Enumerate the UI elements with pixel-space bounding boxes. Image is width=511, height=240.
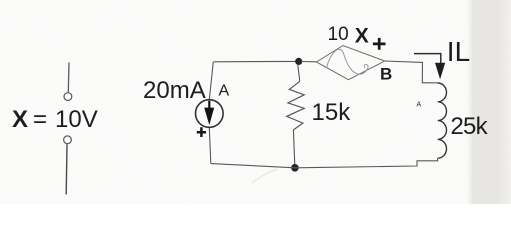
current arrow IL (annotation) bbox=[414, 54, 441, 64]
terminal (bottom, port X) bbox=[64, 136, 72, 144]
inductor coil (25k) bbox=[438, 83, 447, 158]
terminal (top, port X) bbox=[64, 93, 72, 101]
wire (diamond to right corner) bbox=[385, 61, 438, 83]
node junction (top of 15k) bbox=[295, 58, 302, 65]
dependent source squiggle bbox=[327, 49, 369, 74]
polarity + (dependent source) bbox=[373, 38, 386, 50]
wire (bottom rail) bbox=[211, 158, 438, 168]
wire (top lead of port X) bbox=[67, 63, 70, 93]
wire (15k bottom lead) bbox=[293, 130, 295, 168]
dependent source (diamond, 10X) bbox=[316, 46, 384, 80]
scanner gray band on right edge bbox=[464, 0, 511, 204]
current source I1 (20mA) circle bbox=[196, 100, 224, 128]
polarity + (current source) bbox=[197, 127, 206, 137]
wire (node to diamond) bbox=[301, 61, 316, 63]
wire (top rail) bbox=[214, 60, 298, 62]
resistor 15k zigzag bbox=[287, 81, 305, 130]
wire (15k top lead) bbox=[298, 64, 300, 81]
wire (bottom lead of port X) bbox=[65, 144, 68, 194]
current source I1 arrow bbox=[208, 101, 210, 109]
paper noise (decorative) bbox=[0, 0, 1, 1]
node junction (bottom of 15k) bbox=[291, 164, 299, 172]
wire (left vertical branch) bbox=[209, 62, 213, 164]
